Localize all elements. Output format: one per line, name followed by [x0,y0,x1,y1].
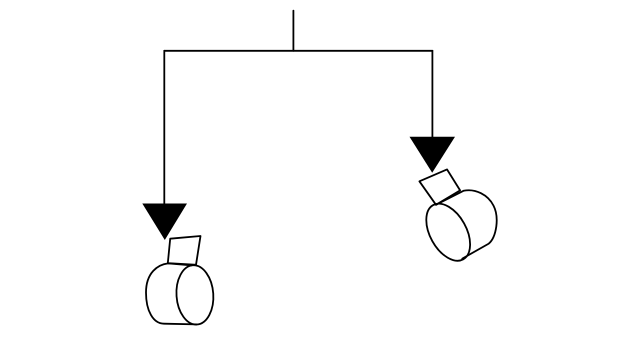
caster left: wheel silhouette [146,263,197,324]
wire: right vertical leader [431,51,433,138]
caster left: wheel front face ellipse [174,264,215,326]
caster left: stem plate [168,236,201,265]
wire: left vertical leader [163,51,165,204]
caster right: wheel front face ellipse [417,196,479,268]
caster right: wheel silhouette [437,190,497,258]
wire: horizontal crossbar [164,50,432,52]
arrowhead right [410,137,456,173]
wire: top vertical leader [292,11,294,51]
caster right: stem plate [419,169,460,204]
arrowhead left [142,204,187,241]
